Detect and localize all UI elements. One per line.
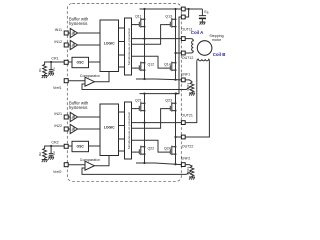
node CR1: [50, 61, 52, 63]
oscillator OSC1: [69, 57, 89, 67]
ground rail bridge 1: [136, 78, 182, 81]
ground rail bridge 2: [136, 163, 182, 165]
transistor Q11: [135, 15, 146, 28]
ground for C2: [48, 157, 54, 160]
wire buffer U1a to logic: [78, 32, 100, 34]
resistor RNF2: [186, 165, 194, 177]
svg-text:Q11: Q11: [135, 15, 142, 19]
wire logic 1 to prevention 1: [119, 27, 125, 29]
wire left leg bridge 2: [144, 93, 146, 163]
wire VS2 to supply node: [185, 9, 189, 17]
svg-text:OUT22: OUT22: [182, 144, 194, 148]
comparator 1: [80, 74, 101, 86]
svg-text:Vref1: Vref1: [53, 86, 61, 90]
wire left leg bridge 1: [144, 9, 146, 79]
coil A winding: [191, 39, 194, 53]
pin OUT11: [181, 37, 185, 41]
pin VS2: [181, 15, 185, 19]
svg-text:RNF1: RNF1: [186, 82, 190, 90]
wire CR2 node to pin: [51, 145, 64, 147]
VCC rail bridge 1: [140, 8, 182, 10]
buffer with hysteresis U1a: [70, 28, 77, 37]
junction OUT12 node: [174, 52, 176, 54]
wire buffer U2b to logic: [78, 128, 100, 130]
VCC rail bridge 2: [140, 93, 180, 95]
wire logic 2 to prevention 2: [119, 125, 125, 127]
svg-text:B: B: [207, 10, 209, 14]
svg-text:RNF2: RNF2: [186, 166, 190, 174]
wire gate Q14: [132, 56, 167, 68]
pin VS1: [181, 7, 185, 11]
svg-text:Q23: Q23: [165, 99, 172, 103]
wire OSC1 to logic: [89, 61, 101, 63]
junction rail-right leg bridge 1: [174, 8, 176, 10]
ground for C1: [48, 73, 54, 76]
pin ENF1: [181, 78, 185, 82]
wire OUT21 net: [132, 122, 184, 124]
svg-text:LOGIC: LOGIC: [104, 42, 115, 46]
capacitor EB: [199, 9, 209, 22]
junction bottom-left bridge 2: [143, 162, 145, 164]
wire Vref2 to comparator: [68, 164, 85, 166]
svg-text:OUT21: OUT21: [181, 114, 193, 118]
svg-text:IN22: IN22: [54, 124, 62, 128]
wire right leg bridge 1: [175, 9, 177, 80]
wire gate Q23: [132, 109, 167, 129]
svg-text:IN11: IN11: [55, 28, 62, 32]
transistor Q13: [165, 15, 176, 28]
svg-text:ENF1: ENF1: [181, 72, 190, 76]
svg-text:OSC: OSC: [77, 144, 85, 148]
transistor Q24: [164, 146, 177, 156]
wire buffer U1b to logic: [78, 44, 100, 46]
wire OUT12 net: [176, 52, 184, 54]
wire VS2 feed to bridge 2: [176, 17, 182, 94]
buffer with hysteresis U1b: [70, 40, 77, 49]
svg-text:Q14: Q14: [164, 62, 171, 66]
wire coil B to OUT21: [185, 61, 197, 122]
svg-text:Comparator: Comparator: [80, 158, 101, 162]
svg-text:R1: R1: [38, 68, 42, 72]
svg-text:Q12: Q12: [148, 62, 155, 66]
wire VS1 to supply node: [185, 8, 202, 10]
IC boundary (dashed): [67, 4, 181, 182]
junction rail-right leg bridge 2: [174, 93, 176, 95]
resistor RNF1: [186, 81, 194, 93]
pin IN21: [64, 115, 68, 119]
pin CR1: [64, 60, 68, 64]
junction supply node: [188, 8, 190, 10]
junction bottom-left bridge 1: [143, 78, 145, 80]
pin ENF2: [181, 163, 185, 167]
wire logic 2 to prevention 4: [119, 150, 125, 152]
wire gate Q13: [132, 25, 167, 45]
wire logic 1 to prevention 3: [119, 54, 125, 56]
wire right leg bridge 2: [175, 93, 177, 164]
logic block 2: [100, 104, 119, 156]
transistor Q22: [135, 146, 154, 156]
svg-text:LOGIC: LOGIC: [104, 126, 115, 130]
wire comparator 2 output to logic: [94, 156, 109, 166]
wire ENF1 to RNF1: [185, 80, 192, 82]
svg-text:ENF2: ENF2: [181, 156, 190, 160]
coil B winding: [197, 59, 210, 61]
junction rail-left leg bridge 1: [143, 8, 145, 10]
pin Vref2: [64, 163, 68, 167]
wire OUT11 net: [132, 38, 184, 40]
wire gate Q21: [132, 108, 136, 110]
ground for RNF2: [189, 177, 195, 180]
node CR2: [50, 145, 52, 147]
resistor R1: [38, 62, 51, 76]
buffer with hysteresis U2a: [70, 112, 77, 121]
transistor Q23: [165, 99, 176, 112]
svg-text:OUT12: OUT12: [182, 56, 194, 60]
junction bottom-right bridge 1: [174, 79, 176, 81]
wire gate Q22: [132, 151, 136, 153]
pin Vref1: [64, 79, 68, 83]
wire OUT22 net: [176, 136, 184, 138]
wire comparator 1 sense input from RNF1: [82, 84, 191, 90]
wire logic 2 to prevention 1: [119, 111, 125, 113]
pin OUT21: [181, 121, 185, 125]
pin IN22: [64, 127, 68, 131]
junction OUT22 node: [174, 136, 176, 138]
logic block 1: [100, 20, 119, 72]
svg-text:Q24: Q24: [164, 146, 171, 150]
svg-text:R2: R2: [38, 152, 42, 156]
svg-text:Q22: Q22: [148, 146, 155, 150]
ground for R1: [42, 76, 48, 79]
junction OUT21 node: [143, 122, 145, 124]
svg-text:IN21: IN21: [54, 112, 62, 116]
buffer U2a input wire: [68, 116, 70, 118]
wire OUT12 to coil A: [185, 52, 191, 54]
svg-text:C1: C1: [52, 67, 56, 71]
wire comparator 2 sense input from RNF2: [82, 168, 191, 174]
wire logic 1 to prevention 2: [119, 41, 125, 43]
wire OUT11 to coil A: [185, 38, 191, 40]
svg-text:Simultaneous-on prevention: Simultaneous-on prevention: [127, 27, 131, 65]
resistor R2: [38, 146, 51, 160]
capacitor C1: [49, 62, 56, 73]
simultaneous-on prevention block 2: [125, 102, 132, 159]
junction rail-left leg bridge 2: [143, 93, 145, 95]
capacitor C2: [49, 146, 56, 157]
wire gate Q12: [132, 67, 136, 69]
wire Vref1 to comparator: [68, 80, 85, 82]
svg-text:motor: motor: [212, 38, 222, 42]
pin CR2: [64, 144, 68, 148]
oscillator OSC2: [69, 141, 89, 151]
svg-text:Vref2: Vref2: [53, 170, 61, 174]
transistor Q14: [164, 62, 177, 72]
svg-text:Q13: Q13: [165, 15, 172, 19]
svg-text:hysteresis: hysteresis: [69, 105, 87, 110]
transistor Q21: [135, 99, 146, 112]
wire gate Q11: [132, 24, 136, 26]
ground for RNF1: [189, 93, 195, 96]
svg-text:Coil B: Coil B: [213, 52, 226, 57]
pin OUT12: [181, 51, 185, 55]
ground for R2: [42, 160, 48, 163]
wire CR1 node to pin: [51, 61, 64, 63]
transistor Q12: [135, 62, 154, 72]
wire ENF2 to RNF2: [185, 165, 192, 167]
svg-text:Simultaneous-on prevention: Simultaneous-on prevention: [127, 111, 131, 149]
wire logic 1 to prevention 4: [119, 66, 125, 68]
wire OSC2 to logic: [89, 145, 101, 147]
simultaneous-on prevention block 1: [125, 18, 132, 75]
svg-text:C2: C2: [52, 151, 56, 155]
pin IN12: [64, 43, 68, 47]
buffer U1b input wire: [68, 44, 70, 46]
svg-text:OSC: OSC: [77, 60, 85, 64]
svg-text:hysteresis: hysteresis: [69, 21, 87, 26]
junction VS2 feed on rail 2: [175, 93, 177, 95]
svg-text:Coil A: Coil A: [191, 30, 204, 35]
svg-text:CR2: CR2: [51, 141, 58, 145]
junction OUT11 node: [143, 38, 145, 40]
buffer with hysteresis U2b: [70, 124, 77, 133]
junction bottom-right bridge 2: [174, 163, 176, 165]
wire coil B to OUT22: [185, 61, 209, 137]
wire logic 2 to prevention 3: [119, 138, 125, 140]
buffer U1a input wire: [68, 32, 70, 34]
comparator 2: [80, 158, 101, 170]
pin IN11: [64, 31, 68, 35]
stepping motor body: [197, 41, 212, 56]
wire buffer U2a to logic: [78, 116, 100, 118]
svg-text:CR1: CR1: [51, 57, 58, 61]
svg-text:Q21: Q21: [135, 99, 142, 103]
ground for capacitor EB: [200, 22, 206, 25]
wire gate Q24: [132, 140, 167, 152]
pin OUT22: [181, 135, 185, 139]
wire comparator 1 output to logic: [94, 72, 109, 82]
svg-text:IN12: IN12: [54, 40, 62, 44]
buffer U2b input wire: [68, 128, 70, 130]
svg-text:Comparator: Comparator: [80, 74, 101, 78]
